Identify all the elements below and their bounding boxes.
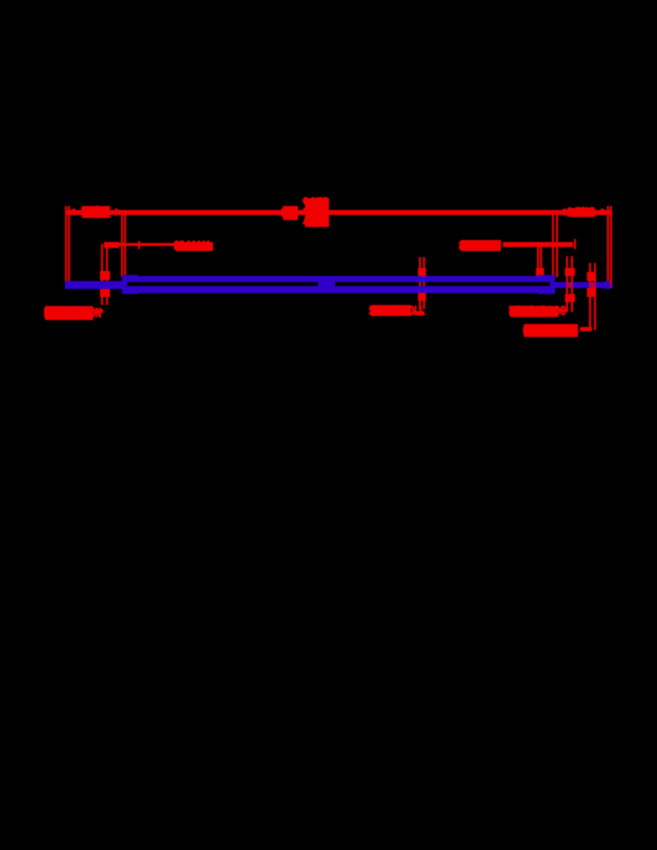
node: M4 arrow above bar (587, 272, 597, 281)
node: M3 arrow below bar (565, 294, 575, 302)
node: M4 arrow below bar (587, 288, 597, 297)
wire: text shade roll (371, 305, 411, 316)
wire: text 8 MAX right (461, 240, 501, 251)
node: M1 arrow below bar (100, 289, 110, 297)
node: arrowhead right inner (557, 208, 566, 216)
node: M3 red crossing over rod (566, 282, 573, 289)
wire: marker M4 vertical pair (589, 263, 591, 330)
wire: left inner extension line pair (121, 211, 123, 277)
wire: right leader drop pair (537, 244, 539, 277)
wire: right inner extension line pair (552, 211, 554, 277)
node: M1 arrow above bar (100, 271, 110, 280)
wire: left outer extension line pair (65, 206, 67, 286)
wire: overall top dimension line (66, 210, 610, 215)
node: right leader arrow at bar (536, 268, 544, 277)
wire: text see note (524, 324, 578, 338)
node: M4 red crossing over rod (589, 282, 596, 289)
wire: right outer extension line pair (607, 206, 609, 288)
node: M2 arrow above bar (418, 268, 426, 277)
wire: bottom-right label leader (560, 309, 568, 313)
wire: dim text center stacked block (305, 198, 329, 227)
node: left leader tick (138, 241, 141, 250)
node: center joint block (318, 277, 335, 293)
wire: bottom-center label leader (413, 311, 424, 314)
node: left leader elbow arrow (104, 242, 119, 249)
wire: text pin location (45, 306, 94, 320)
node: bright blue patch at M2 crossing (419, 279, 427, 282)
node: tube bottom wall (122, 286, 554, 293)
wire: dim text left 1 7/8 (82, 206, 110, 218)
wire: left 8in MAX leader (104, 243, 175, 246)
wire: right 8in MAX leader (503, 242, 573, 247)
wire: marker M3 vertical pair (566, 256, 568, 312)
wire: dim text center feet (283, 206, 298, 220)
node: tube top wall (122, 276, 554, 282)
node: tube right end cap (550, 275, 555, 294)
wire: text 8 MAX left (176, 242, 213, 252)
node: left rod (blue) (65, 281, 123, 289)
node: right rod (blue) (553, 282, 607, 289)
wire: dim text right 1 7/8 (569, 208, 595, 218)
node: arrowhead right outer (601, 208, 610, 216)
node: tube left end cap (122, 275, 127, 294)
node: right leader end tick (574, 239, 577, 249)
node: arrowhead left inner (115, 208, 124, 216)
wire: bottom-right note leader (580, 327, 592, 331)
wire: bottom-left label leader (95, 309, 103, 312)
wire: text hem bar loc (510, 306, 558, 317)
node: M2 arrow below bar (418, 292, 426, 300)
node: M3 arrow above bar (565, 268, 575, 276)
node: arrowhead left outer (66, 208, 75, 216)
wire: marker M1 vertical pair (101, 244, 103, 305)
wire: marker M2 vertical pair (419, 257, 421, 309)
